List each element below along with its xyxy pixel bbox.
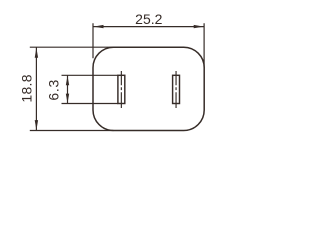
svg-text:6.3: 6.3: [46, 79, 62, 101]
svg-text:18.8: 18.8: [19, 74, 35, 102]
svg-text:25.2: 25.2: [135, 11, 162, 27]
